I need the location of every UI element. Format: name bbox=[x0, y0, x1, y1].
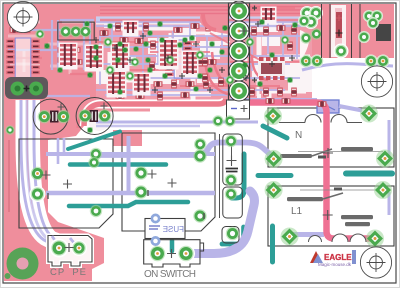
svg-text:FUSE: FUSE bbox=[163, 225, 184, 234]
svg-text:Magic-mouse.dk: Magic-mouse.dk bbox=[318, 262, 352, 267]
svg-text:EAGLE: EAGLE bbox=[324, 253, 352, 262]
svg-text:ON SWITCH: ON SWITCH bbox=[144, 269, 196, 280]
svg-text:N: N bbox=[295, 130, 302, 141]
svg-text:CP PE: CP PE bbox=[50, 267, 86, 278]
svg-text:L1: L1 bbox=[291, 206, 303, 217]
